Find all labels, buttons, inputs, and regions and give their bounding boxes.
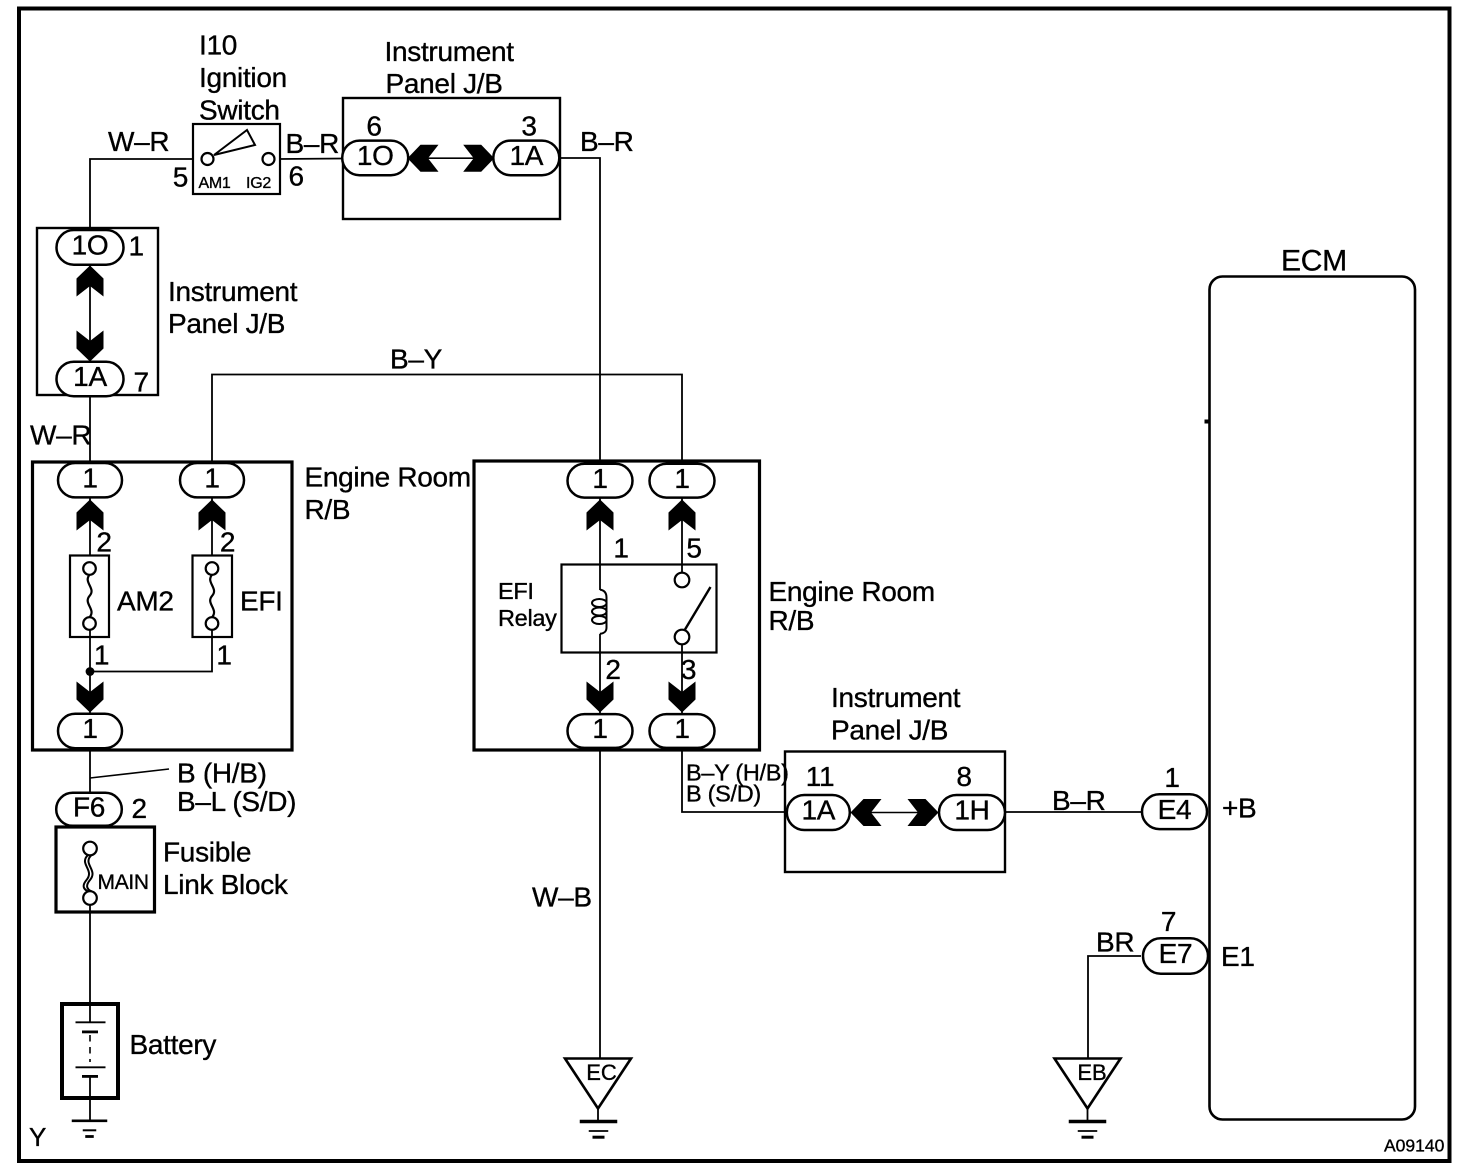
pass-through arrow up (EFI) (199, 500, 226, 531)
svg-text:Panel J/B: Panel J/B (168, 308, 285, 339)
ground (EC) (580, 1120, 618, 1124)
svg-text:1: 1 (592, 713, 607, 744)
svg-text:B–Y: B–Y (390, 344, 443, 375)
connector 1O pin 6 (342, 141, 408, 176)
wire EB to ground (1087, 1108, 1089, 1120)
wire B-R: 1A pin 3 down to EFI relay (559, 158, 600, 463)
wire inside J/B (427, 157, 474, 159)
ignition switch lever (214, 130, 255, 155)
svg-text:1: 1 (129, 231, 144, 262)
pass-through arrow left (851, 799, 882, 826)
svg-text:MAIN: MAIN (98, 871, 149, 894)
connector 1 relay coil (568, 464, 633, 498)
ground (battery) (72, 1120, 108, 1123)
wire to relay pin 1 (599, 498, 601, 591)
pass-through arrow up (AM2) (77, 500, 104, 531)
svg-text:7: 7 (1161, 906, 1176, 937)
connector 1 output B-Y (650, 714, 715, 748)
ECM connector E7 pin 7 (1143, 938, 1208, 974)
svg-text:B–R: B–R (286, 128, 340, 159)
svg-text:1: 1 (204, 462, 219, 493)
svg-text:1: 1 (82, 713, 97, 744)
svg-text:AM1: AM1 (199, 175, 231, 192)
svg-text:R/B: R/B (305, 494, 351, 525)
svg-text:2: 2 (605, 654, 620, 685)
svg-text:BR: BR (1096, 927, 1134, 958)
speck artifact (1205, 420, 1209, 424)
engine room R/B (left) body (33, 462, 293, 750)
svg-text:ECM: ECM (1281, 245, 1347, 278)
svg-text:B (S/D): B (S/D) (686, 781, 761, 807)
svg-text:6: 6 (289, 161, 304, 192)
svg-text:Ignition: Ignition (199, 62, 287, 93)
svg-text:5: 5 (173, 162, 188, 193)
svg-text:Relay: Relay (498, 605, 557, 631)
fuse AM2 (70, 556, 109, 638)
svg-text:EB: EB (1077, 1060, 1106, 1085)
svg-text:Panel J/B: Panel J/B (386, 68, 503, 99)
svg-text:1A: 1A (73, 361, 107, 392)
svg-text:E7: E7 (1159, 938, 1193, 969)
wire B-Y: engine room R/B to EFI relay pin 5 (212, 375, 682, 464)
svg-text:3: 3 (681, 654, 696, 685)
relay switch contact bottom (675, 630, 690, 645)
svg-text:Instrument: Instrument (168, 276, 298, 307)
pass-through arrow up (switch) (669, 500, 696, 531)
ECM body (1210, 277, 1416, 1120)
svg-text:EFI: EFI (240, 586, 283, 617)
connector 1A pin 11 (787, 795, 850, 830)
svg-text:Y: Y (29, 1122, 46, 1152)
connector 1 relay switch (650, 464, 715, 498)
svg-text:7: 7 (134, 367, 149, 398)
wire BR: E7 to ground EB (1088, 956, 1141, 1058)
svg-text:2: 2 (96, 527, 111, 558)
wire inside J/B (89, 265, 91, 362)
svg-text:1A: 1A (801, 795, 835, 826)
svg-text:E1: E1 (1221, 941, 1255, 972)
svg-text:B–R: B–R (580, 126, 634, 157)
svg-text:+B: +B (1222, 793, 1256, 824)
svg-text:1: 1 (216, 640, 231, 671)
engine room R/B (right) body (474, 461, 760, 750)
svg-text:E4: E4 (1158, 794, 1192, 825)
connector 1 above AM2 (58, 463, 122, 497)
svg-text:5: 5 (686, 533, 701, 564)
svg-text:B (H/B): B (H/B) (177, 758, 267, 789)
connector 1O pin 1 (57, 230, 124, 265)
ECM connector E4 pin 1 (1142, 794, 1207, 829)
wire relay pin 3 down (681, 644, 683, 715)
wire B-R: ignition switch IG2 to instrument panel J/B (280, 158, 344, 161)
connector 1 output W-B (568, 714, 633, 748)
instrument panel J/B (top) body (343, 98, 560, 219)
svg-text:Battery: Battery (130, 1029, 217, 1060)
pass-through arrow up (77, 266, 104, 297)
svg-text:Link Block: Link Block (163, 869, 289, 900)
pass-through arrow down (77, 331, 104, 362)
svg-text:W–R: W–R (30, 420, 91, 451)
ignition switch contact IG2 (263, 153, 275, 165)
fusible link block body (56, 827, 155, 912)
ignition switch contact AM1 (202, 153, 214, 165)
svg-text:IG2: IG2 (246, 175, 271, 192)
wire W-B: relay to ground EC (599, 748, 601, 1058)
pass-through arrow right (463, 145, 494, 172)
svg-text:11: 11 (806, 761, 834, 792)
svg-text:W–R: W–R (108, 126, 169, 157)
ground (EB) (1069, 1120, 1107, 1124)
svg-text:1O: 1O (357, 140, 394, 171)
relay coil (600, 590, 607, 634)
wire W-R: ignition switch AM1 to junction block 1O (90, 159, 193, 231)
svg-text:F6: F6 (73, 792, 105, 823)
svg-text:Engine Room: Engine Room (305, 462, 471, 493)
battery cells (89, 1004, 91, 1022)
wire W-R: 1A pin 7 to engine room R/B (89, 396, 91, 463)
instrument panel J/B (left) body (37, 228, 158, 395)
svg-text:Instrument: Instrument (385, 36, 515, 67)
svg-text:Fusible: Fusible (163, 837, 251, 868)
svg-text:Engine Room: Engine Room (769, 576, 935, 607)
connector 1H pin 8 (939, 795, 1005, 830)
svg-text:EFI: EFI (498, 578, 534, 604)
svg-text:1H: 1H (954, 795, 989, 826)
svg-text:1: 1 (94, 640, 109, 671)
connector 1 above EFI (180, 463, 244, 497)
connector 1 output (58, 714, 122, 748)
svg-text:2: 2 (220, 527, 235, 558)
svg-text:B–R: B–R (1052, 785, 1106, 816)
svg-text:2: 2 (132, 793, 147, 824)
svg-text:6: 6 (366, 110, 381, 141)
pass-through arrow down (pin3) (669, 682, 696, 713)
svg-text:1: 1 (674, 713, 689, 744)
svg-text:1: 1 (1164, 762, 1179, 793)
wire to fuse AM2 (89, 497, 91, 556)
wire B-R: 1H pin 8 to ECM +B (1006, 811, 1143, 813)
svg-text:EC: EC (586, 1060, 617, 1085)
svg-text:W–B: W–B (532, 882, 592, 913)
EFI relay body (562, 565, 717, 653)
wire relay pin 2 down (599, 634, 601, 715)
svg-text:AM2: AM2 (117, 586, 174, 617)
wire to relay pin 5 (681, 498, 683, 573)
ground triangle EC (565, 1059, 631, 1109)
wire to fuse EFI (211, 497, 213, 556)
relay switch lever (685, 587, 711, 630)
pass-through arrow down (pin2) (587, 682, 614, 713)
svg-text:1O: 1O (72, 230, 109, 261)
junction dot (86, 667, 95, 676)
svg-text:1A: 1A (509, 140, 543, 171)
instrument panel J/B (bottom) body (785, 752, 1005, 873)
svg-text:I10: I10 (199, 30, 237, 61)
pass-through arrow up (coil) (587, 500, 614, 531)
svg-text:A09140: A09140 (1384, 1136, 1445, 1156)
svg-text:Instrument: Instrument (831, 682, 961, 713)
wire inside J/B (871, 812, 918, 814)
wire B-Y: relay pin 3 to instrument panel J/B (682, 748, 785, 812)
svg-text:3: 3 (521, 110, 536, 141)
svg-text:1: 1 (613, 533, 628, 564)
pass-through arrow left (408, 145, 439, 172)
connector 1A pin 3 (493, 141, 559, 176)
svg-text:B–L (S/D): B–L (S/D) (177, 786, 296, 817)
connector F6 pin 2 (56, 793, 122, 826)
svg-text:1: 1 (82, 462, 97, 493)
battery body (62, 1004, 118, 1098)
svg-text:1: 1 (592, 463, 607, 494)
svg-text:8: 8 (956, 761, 971, 792)
wire EFI to junction (90, 630, 212, 672)
pass-through arrow right (908, 799, 939, 826)
wire AM2 to output (89, 630, 91, 715)
connector 1A pin 7 (57, 362, 124, 397)
fuse EFI (193, 556, 233, 638)
wire fusible link to battery (89, 905, 91, 1004)
fusible link MAIN (83, 842, 97, 856)
svg-text:Panel J/B: Panel J/B (831, 715, 948, 746)
wire B: R/B to fusible link F6 (89, 747, 91, 793)
relay switch contact top (675, 573, 690, 588)
wire EC to ground (597, 1108, 599, 1120)
pass-through arrow down (77, 682, 104, 713)
svg-text:1: 1 (674, 463, 689, 494)
ignition switch I10 body (193, 124, 280, 194)
svg-text:R/B: R/B (769, 605, 815, 636)
svg-text:Switch: Switch (199, 95, 280, 126)
pointer line (90, 769, 169, 778)
ground triangle EB (1055, 1059, 1121, 1109)
